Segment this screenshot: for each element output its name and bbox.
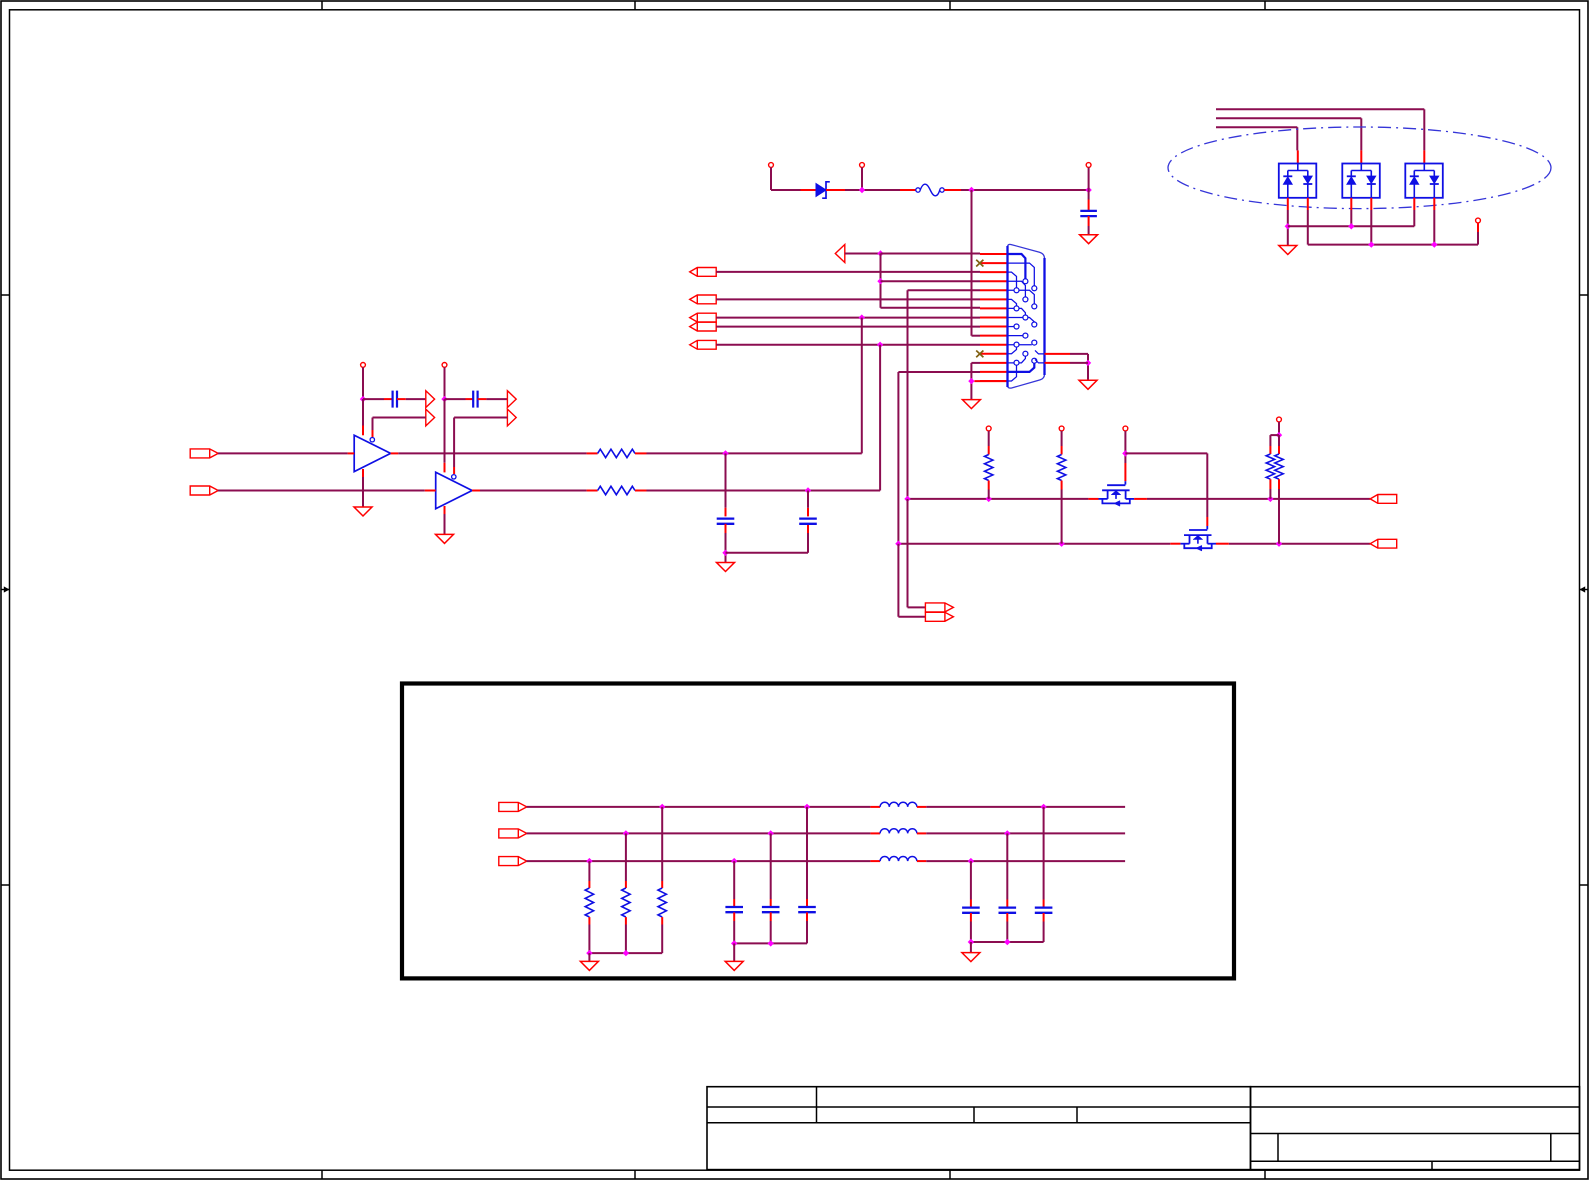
wire <box>362 367 364 399</box>
wire line C <box>527 860 871 862</box>
ground <box>1279 246 1297 255</box>
wire <box>807 533 809 553</box>
pin wire D4.1 <box>1413 198 1415 210</box>
output flag BUS2 <box>925 612 953 621</box>
border tick top <box>949 1 951 10</box>
ground <box>436 534 454 543</box>
junction <box>1267 496 1273 502</box>
pin wire shield2 <box>1045 362 1071 364</box>
junction <box>1004 939 1010 945</box>
pin terminal Q1-G <box>1123 426 1128 431</box>
wire TVS chassis bus <box>1308 244 1478 246</box>
wire <box>588 953 590 961</box>
wire <box>372 418 374 431</box>
inductor FL1 <box>880 802 917 807</box>
wire <box>771 189 801 191</box>
resistor RP1 <box>985 455 993 481</box>
input flag RX2 <box>690 295 717 304</box>
wire <box>1269 435 1271 446</box>
wire line B <box>926 832 1125 834</box>
wire <box>661 807 663 881</box>
junction <box>722 550 728 556</box>
border tick left <box>1 884 10 886</box>
wire <box>480 490 587 492</box>
junction <box>768 830 774 836</box>
power arrow VCC-B <box>507 391 516 408</box>
pin wire <box>1170 543 1180 545</box>
junction <box>586 950 592 956</box>
ground <box>354 507 372 516</box>
wire <box>961 189 1089 191</box>
pin wire <box>944 189 961 191</box>
wire <box>588 861 590 881</box>
wire <box>770 921 772 943</box>
pin wire <box>770 912 772 921</box>
border tick top <box>634 1 636 10</box>
wire <box>444 367 446 399</box>
pin wire <box>625 881 627 888</box>
input flag AIN1 <box>190 449 218 458</box>
wire <box>444 399 446 463</box>
wire <box>861 318 863 454</box>
border center arrow right <box>1580 586 1589 592</box>
junction <box>968 858 974 864</box>
wire upper bus <box>1147 498 1370 500</box>
wire <box>897 372 899 544</box>
fuse F1 <box>916 184 944 196</box>
wire <box>1006 833 1008 899</box>
pin wire <box>661 881 663 888</box>
pin wire 9 <box>980 326 1008 328</box>
pin wire <box>1477 223 1479 232</box>
output flag OUT1 <box>1370 495 1397 504</box>
pin wire 5 <box>980 289 1008 291</box>
junction <box>805 487 811 493</box>
resistor RF2 <box>622 888 630 917</box>
pin terminal J-B1 <box>769 163 774 168</box>
no-connect pin2 <box>976 260 983 267</box>
junction <box>1085 187 1091 193</box>
title block left section <box>707 1087 1251 1170</box>
wire <box>373 417 426 419</box>
pin wire <box>733 899 735 907</box>
wire <box>897 544 899 617</box>
wire <box>1413 210 1415 226</box>
wire <box>972 335 981 337</box>
pin wire <box>635 490 647 492</box>
pin terminal U1B-V+ <box>442 363 447 368</box>
wire <box>1070 362 1088 364</box>
wire <box>845 189 900 191</box>
junction <box>804 804 810 810</box>
capacitor CF3 <box>798 907 816 912</box>
pin wire <box>625 917 627 924</box>
pin wire <box>917 860 926 862</box>
wire <box>1278 435 1280 446</box>
pin wire shield1 <box>1045 353 1071 355</box>
resistor RP2 <box>1057 455 1065 481</box>
pin wire <box>1061 446 1063 455</box>
wire to pin1 <box>881 253 981 255</box>
pin wire 11 <box>980 344 1008 346</box>
pin wire 15 <box>980 380 1008 382</box>
title block right section <box>1251 1087 1580 1170</box>
pin wire <box>397 398 406 400</box>
pin wire <box>807 524 809 533</box>
capacitor CF6 <box>1035 908 1053 913</box>
wire to pin13 <box>971 362 980 364</box>
capacitor CF2 <box>762 907 780 912</box>
border tick bottom <box>949 1170 951 1179</box>
TVS diode pair D2 <box>1279 164 1317 198</box>
border tick right <box>1580 884 1589 886</box>
pin wire <box>1216 543 1229 545</box>
pin terminal J-B2 <box>860 163 865 168</box>
pin wire <box>384 398 393 400</box>
pin wire <box>478 398 487 400</box>
pin wire 8 <box>980 316 1008 318</box>
wire to pin14 <box>898 371 980 373</box>
arrow flag TX <box>835 245 845 263</box>
wire <box>1206 453 1208 517</box>
pin wire <box>1088 498 1098 500</box>
junction <box>722 450 728 456</box>
wire <box>970 922 972 943</box>
wire to pin5 <box>908 289 981 291</box>
pin wire <box>1043 913 1045 922</box>
wire <box>362 399 364 425</box>
border center arrow left <box>1 586 10 592</box>
wire <box>733 861 735 899</box>
wire <box>1006 922 1008 943</box>
wire <box>444 514 446 534</box>
pin wire <box>635 452 647 454</box>
pin wire <box>1088 216 1090 226</box>
junction <box>986 496 992 502</box>
wire lower bus <box>898 543 1170 545</box>
wire <box>1088 167 1090 199</box>
border tick top <box>321 1 323 10</box>
wire <box>898 616 925 618</box>
ground <box>717 563 735 572</box>
junction <box>623 950 629 956</box>
resistor RA <box>1266 454 1274 479</box>
power arrow VCC-A <box>426 391 435 408</box>
power arrow GND-A <box>426 409 435 426</box>
input flag RX1 <box>690 268 717 277</box>
pin wire gnd <box>362 469 364 477</box>
wire to pin4 <box>881 280 981 282</box>
pin wire <box>1278 479 1280 489</box>
capacitor C-U1B <box>473 391 477 408</box>
resistor RB <box>1275 454 1283 479</box>
wire <box>1270 434 1279 436</box>
pin wire <box>1061 481 1063 490</box>
pin terminal RP1 <box>986 426 991 431</box>
ground <box>1079 380 1097 389</box>
input flag SIG1 <box>690 313 717 322</box>
wire <box>1360 118 1362 150</box>
resistor R2 <box>598 486 635 494</box>
pin wire <box>770 899 772 907</box>
wire <box>725 453 727 507</box>
junction <box>659 804 665 810</box>
wire <box>733 943 735 961</box>
wire <box>1061 431 1063 446</box>
wire <box>726 552 809 554</box>
junction <box>859 314 865 320</box>
pin wire <box>1088 200 1090 212</box>
pin wire D3.1 <box>1350 198 1352 210</box>
wire <box>445 398 466 400</box>
wire gnd bus <box>734 942 807 944</box>
output flag OUT2 <box>1370 539 1397 548</box>
capacitor C-top <box>1080 211 1097 216</box>
wire lower bus <box>1229 543 1370 545</box>
wire line B <box>527 832 871 834</box>
filter box frame <box>402 684 1234 979</box>
pin wire out <box>472 490 480 492</box>
pin wire gate <box>1124 463 1126 481</box>
pin wire <box>1269 479 1271 489</box>
pin wire <box>806 899 808 907</box>
pin wire D2.2 <box>1307 198 1309 210</box>
pin wire <box>1269 446 1271 454</box>
pin wire <box>733 912 735 921</box>
junction <box>768 940 774 946</box>
wire to pin7 <box>881 307 981 309</box>
junction <box>877 342 883 348</box>
wire <box>806 921 808 943</box>
output flag BUS1 <box>925 603 953 612</box>
wire <box>625 833 627 881</box>
junction <box>877 250 883 256</box>
zener diode D1 <box>816 182 830 198</box>
pin wire <box>870 860 880 862</box>
wire TVS feed 1 <box>1216 126 1297 128</box>
junction <box>968 939 974 945</box>
pin wire D4.2 <box>1433 198 1435 210</box>
pin wire <box>870 832 880 834</box>
pin wire <box>970 900 972 908</box>
junction <box>1431 241 1437 247</box>
pin wire gnd <box>444 506 446 514</box>
border tick right <box>1580 294 1589 296</box>
wire <box>1125 452 1207 454</box>
wire <box>398 452 586 454</box>
wire <box>218 490 425 492</box>
wire <box>363 398 384 400</box>
resistor RF1 <box>585 888 593 917</box>
pin terminal J-B3 <box>1086 163 1091 168</box>
filter input flag L2 <box>499 829 527 838</box>
pin wire 13 <box>980 362 1008 364</box>
op-amp buffer U1B <box>436 472 472 508</box>
wire <box>218 452 348 454</box>
wire <box>1296 127 1298 150</box>
junction <box>623 830 629 836</box>
ground <box>580 961 598 970</box>
wire gnd bus <box>589 952 662 954</box>
capacitor C2 <box>799 519 817 524</box>
inductor FL2 <box>880 829 917 834</box>
wire <box>770 167 772 190</box>
border tick bottom <box>321 1170 323 1179</box>
pin wire <box>725 508 727 517</box>
capacitor CF5 <box>999 908 1017 913</box>
junction <box>731 858 737 864</box>
junction <box>1122 450 1128 456</box>
wire <box>454 417 507 419</box>
op-amp buffer U1A <box>354 435 390 471</box>
wire <box>725 533 727 563</box>
wire <box>970 363 972 400</box>
border tick top <box>1264 1 1266 10</box>
wire <box>861 167 863 190</box>
pin wire 6 <box>980 298 1008 300</box>
pin wire <box>588 881 590 888</box>
pin terminal chassis <box>1476 218 1481 223</box>
wire <box>970 942 972 953</box>
wire to pin3 <box>716 271 980 273</box>
wire <box>1124 453 1126 463</box>
wire <box>908 606 926 608</box>
pin wire <box>444 463 446 473</box>
junction <box>1058 541 1064 547</box>
wire <box>588 925 590 954</box>
pin wire <box>725 524 727 533</box>
pin wire 7 <box>980 307 1008 309</box>
pin wire 10 <box>980 335 1008 337</box>
wire to pin9 <box>716 326 980 328</box>
border tick bottom <box>634 1170 636 1179</box>
wire <box>845 253 881 255</box>
pin wire <box>587 490 598 492</box>
pin wire <box>661 917 663 924</box>
pin wire D2 <box>1297 150 1299 163</box>
wire <box>1061 490 1063 544</box>
pin wire <box>588 917 590 924</box>
input flag SIG2 <box>690 322 717 331</box>
junction <box>1040 804 1046 810</box>
transistor Q1 <box>1099 481 1135 506</box>
pin wire 14 <box>980 371 1008 373</box>
pin wire D3 <box>1360 150 1362 163</box>
pin wire <box>988 481 990 490</box>
pin wire <box>1006 913 1008 922</box>
junction <box>968 187 974 193</box>
pin wire 2 <box>980 262 1008 264</box>
junction <box>1368 241 1374 247</box>
pin wire <box>801 189 817 191</box>
pin wire <box>1278 446 1280 454</box>
pin wire 1 <box>980 253 1008 255</box>
wire <box>1124 431 1126 454</box>
wire <box>625 925 627 954</box>
pin wire out <box>391 452 399 454</box>
capacitor C1 <box>717 519 735 524</box>
wire <box>733 921 735 943</box>
wire <box>1278 422 1280 435</box>
wire <box>1043 922 1045 943</box>
pin wire <box>870 806 880 808</box>
connector J1 pin sockets <box>1008 254 1045 381</box>
pin wire <box>1006 900 1008 908</box>
pin wire <box>453 467 455 474</box>
junction <box>968 378 974 384</box>
pin terminal RP2 <box>1059 426 1064 431</box>
input flag SIG3 <box>690 340 717 349</box>
filter input flag L1 <box>499 802 527 811</box>
wire <box>1088 226 1090 235</box>
resistor RF3 <box>658 888 666 917</box>
junction <box>859 187 865 193</box>
wire to pin11 <box>716 344 980 346</box>
wire <box>1423 109 1425 150</box>
pin wire 12 <box>980 353 1008 355</box>
wire <box>1087 354 1089 380</box>
wire <box>806 807 808 899</box>
junction <box>1348 223 1354 229</box>
wire <box>907 499 909 608</box>
junction <box>360 396 366 402</box>
junction <box>1285 223 1291 229</box>
pin wire <box>362 426 364 436</box>
wire <box>362 477 364 507</box>
pin wire <box>917 806 926 808</box>
pin wire D2.1 <box>1287 198 1289 210</box>
TVS diode pair D3 <box>1342 164 1380 198</box>
pin wire <box>1134 498 1147 500</box>
wire line A <box>926 806 1125 808</box>
ground <box>962 953 980 962</box>
junction <box>877 278 883 284</box>
wire <box>1070 353 1088 355</box>
junction <box>904 496 910 502</box>
pin wire in <box>425 490 436 492</box>
wire <box>880 254 882 308</box>
wire <box>988 490 990 499</box>
wire <box>1307 210 1309 245</box>
border tick left <box>1 294 10 296</box>
pin wire in <box>348 452 355 454</box>
pin wire <box>917 832 926 834</box>
junction <box>731 940 737 946</box>
wire <box>647 452 862 454</box>
wire <box>1477 232 1479 245</box>
wire <box>661 925 663 954</box>
wire <box>770 833 772 899</box>
pin wire gate <box>1206 517 1208 526</box>
wire <box>1433 210 1435 245</box>
wire <box>486 398 507 400</box>
junction <box>1085 360 1091 366</box>
TVS diode pair D4 <box>1405 164 1443 198</box>
pin wire <box>900 189 916 191</box>
wire TVS gnd bus <box>1288 225 1415 227</box>
junction <box>1276 541 1282 547</box>
capacitor C-U1A <box>393 391 397 408</box>
ground <box>1080 235 1098 244</box>
pin wire <box>806 912 808 921</box>
wire <box>1278 489 1280 544</box>
junction <box>1004 830 1010 836</box>
filter input flag L3 <box>499 857 527 866</box>
pin wire <box>466 398 474 400</box>
pin wire 3 <box>980 271 1008 273</box>
transistor Q2 <box>1180 526 1216 551</box>
pin wire D4 <box>1423 150 1425 163</box>
